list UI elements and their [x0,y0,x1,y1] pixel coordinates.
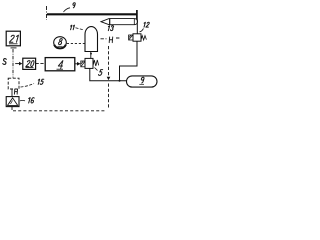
dashed box 15 [8,78,19,89]
label 11 [71,25,75,30]
label 15 [38,79,44,84]
dashed line through H (top) [101,37,121,40]
label 12 leader [140,29,144,32]
label H top [109,37,113,43]
label 15 leader [21,84,35,88]
cylinder 13 right seam [133,19,135,25]
label 16 [29,98,35,103]
junction dot at elbow meeting pipe [119,80,121,82]
motor box 20 [23,58,36,69]
wire: dashed control vertical below pipe [108,84,110,110]
vessel 11 (accumulator with domed top) [85,27,98,52]
label 9 [73,3,75,8]
filter box 16 [6,97,19,107]
label 9 underline [139,83,144,85]
wire: dash-dot control line from 21 down to 15 [12,49,14,78]
label 20 underline [26,67,34,69]
wire: valve 5 outlet down and right to tank [90,68,127,80]
arrow tick under box 21 [11,47,17,49]
valve 12 spring [141,36,146,40]
label S [3,59,6,65]
label 5 [99,70,103,76]
filter 16 hatch [9,101,13,105]
tank 9 (horizontal capsule) [127,76,158,87]
gauge 8 (circle) [54,37,67,49]
wire: dashed control vertical line [108,46,110,76]
label 13 [108,26,113,31]
label 4 [58,61,63,69]
cylinder 13 [101,19,138,25]
label 8 underline [58,45,63,47]
cylinder 13 seam [109,19,111,25]
label 21 [9,35,18,42]
wire: 16 outlet [11,107,13,110]
end tick of pipe 9 [136,10,138,19]
vessel 11 bottom fitting [90,53,92,55]
wire: branch into motor 20 with arrowhead [15,63,19,65]
arrowhead down onto pipe [107,77,111,81]
label 16 leader [20,99,25,102]
wire: pipe end down to valve 12 [136,19,138,34]
label 21 underline [9,43,18,45]
valve 5 spring [93,60,99,66]
label 9 leader [64,8,71,12]
controller box 21 [6,31,20,46]
filter 16 triangle [8,98,18,106]
valve 5 body [85,58,93,68]
label 12 [144,22,149,27]
wire+arrow: 4 to valve 5 [75,63,77,65]
label 9 in tank [141,77,144,83]
label 20 [26,61,34,67]
label 8 [59,39,63,45]
label 4 underline [57,68,64,70]
wire: dashed gauge sensing line [67,43,85,45]
wire: valve 12 outlet elbow to tank pipe [120,41,138,80]
wire: bottom dashed return line [13,110,106,112]
label H bottom [14,89,17,94]
label 11 leader (dashed) [76,28,85,30]
valve 12 body [133,34,141,41]
wire: 20 to 4 [36,63,45,65]
wire: dash-dot break line at inlet of pipe 9 [46,6,48,20]
pipe 9 (thick horizontal fuel line) [47,13,137,15]
wire: 15 down to 16 [11,89,13,97]
pump box 4 [45,58,75,71]
valve 12 coil [129,35,133,40]
label 5 leader [95,68,98,71]
label 13 leader [112,25,113,26]
valve 5 coil [81,61,85,67]
